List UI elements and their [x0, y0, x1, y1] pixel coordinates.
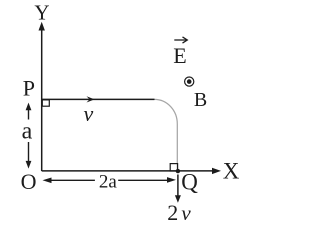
svg-text:Q: Q [181, 169, 198, 194]
svg-text:B: B [194, 89, 207, 111]
svg-text:v: v [84, 101, 94, 126]
svg-text:a: a [22, 118, 33, 144]
svg-text:X: X [223, 159, 240, 184]
svg-text:v: v [181, 201, 191, 225]
svg-text:O: O [21, 169, 37, 194]
svg-text:P: P [23, 75, 35, 100]
svg-text:2: 2 [167, 200, 178, 225]
svg-text:E: E [173, 43, 186, 68]
svg-text:Y: Y [34, 0, 49, 24]
svg-text:2a: 2a [99, 171, 118, 192]
